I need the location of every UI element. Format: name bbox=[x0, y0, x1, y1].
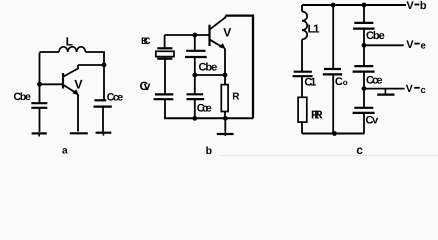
crystal BC: top plate bbox=[157, 47, 172, 49]
svg-text:Cbe: Cbe bbox=[199, 62, 218, 74]
wire: top rail right segment bbox=[85, 52, 104, 100]
capacitor Cv (b) plates bbox=[155, 93, 173, 95]
svg-text:C1: C1 bbox=[304, 77, 316, 89]
svg-text:RR: RR bbox=[311, 110, 323, 122]
svg-text:BC: BC bbox=[141, 36, 151, 47]
wire: node to Cce (c) bbox=[363, 45, 365, 66]
wire: Cce to V-c node bbox=[363, 72, 365, 89]
wire: right column top bbox=[363, 5, 365, 23]
wire: bottom rail of c bbox=[302, 133, 364, 135]
svg-text:o: o bbox=[343, 78, 348, 87]
transistor V (a): emitter arrowhead bbox=[72, 89, 79, 95]
svg-text:e: e bbox=[421, 40, 426, 51]
resistor R box bbox=[221, 85, 228, 112]
wire: V-c tap bbox=[364, 88, 405, 90]
transistor V (a): collector bbox=[64, 65, 79, 77]
node: b bottom-left dot bbox=[192, 116, 197, 121]
wire: Cce to bottom rail bbox=[194, 99, 196, 118]
node: c V-e junction dot bbox=[362, 43, 367, 48]
node: b top junction dot bbox=[192, 33, 197, 38]
wire: C1 to RR bbox=[301, 76, 303, 97]
svg-text:V: V bbox=[406, 83, 413, 95]
wire: Cbe to ground bbox=[39, 108, 41, 132]
svg-text:V: V bbox=[223, 25, 231, 39]
svg-text:Cce: Cce bbox=[197, 103, 212, 115]
capacitor Cbe (b) plates bbox=[186, 50, 205, 52]
wire: middle column upper bbox=[194, 35, 196, 51]
wire: L1 to C1 bbox=[301, 39, 303, 71]
wire: Cv to bottom rail bbox=[363, 113, 365, 134]
wire: Cce to ground bbox=[102, 107, 104, 132]
node: c bottom rail dot bbox=[332, 131, 337, 136]
transistor V (b): emitter bbox=[210, 40, 224, 48]
inductor L1 bbox=[302, 12, 307, 40]
crystal BC: bottom plate bbox=[157, 58, 172, 60]
wire: BC column top bbox=[164, 35, 166, 48]
wire: top horizontal to base bbox=[165, 34, 209, 36]
svg-text:c: c bbox=[421, 85, 426, 96]
node: b bottom-right dot bbox=[223, 116, 228, 121]
capacitor Co plates bbox=[324, 68, 341, 70]
node: c top dot 1 bbox=[331, 3, 336, 8]
svg-text:Cce: Cce bbox=[107, 92, 124, 104]
wire: middle column (Co) upper bbox=[332, 5, 334, 69]
transistor V (b): base bar bbox=[208, 25, 210, 46]
node: collector junction dot bbox=[102, 63, 107, 68]
wire: Cbe to V-e node bbox=[363, 29, 365, 46]
wire: node to R bbox=[224, 75, 226, 85]
capacitor Cce (c) plates bbox=[354, 65, 373, 67]
wire: R to bottom rail bbox=[224, 112, 226, 119]
svg-text:Cbe: Cbe bbox=[14, 91, 32, 103]
faint scan artifact line bbox=[220, 155, 438, 157]
ground (below Cbe) bbox=[32, 132, 47, 134]
capacitor Cce (a) plates bbox=[95, 99, 107, 101]
capacitor Cce (b) plates bbox=[187, 93, 204, 95]
svg-text:L: L bbox=[66, 34, 73, 48]
wire: top rail of b bbox=[226, 16, 254, 119]
transistor V (b): collector bbox=[210, 16, 226, 30]
node: base junction dot bbox=[37, 82, 42, 87]
wire: collector to node bbox=[78, 64, 104, 66]
capacitor Cbe (c) plates bbox=[354, 22, 373, 24]
wire: Co to bottom rail bbox=[332, 74, 334, 133]
ground (b) bbox=[217, 133, 234, 135]
transistor V (a): emitter with arrow bbox=[64, 85, 78, 94]
wire: middle column between Cbe and node bbox=[194, 57, 196, 75]
svg-text:V: V bbox=[406, 0, 414, 12]
svg-text:Cv: Cv bbox=[140, 79, 151, 93]
svg-text:R: R bbox=[232, 92, 240, 103]
wire: node to Cv (c) bbox=[363, 89, 365, 108]
svg-text:a: a bbox=[62, 146, 68, 157]
inductor L bbox=[59, 47, 85, 52]
svg-text:c: c bbox=[356, 143, 363, 157]
capacitor C1 plates bbox=[294, 71, 312, 73]
node: c top dot 2 bbox=[362, 3, 367, 8]
wire: left column top bbox=[301, 5, 303, 12]
wire: ground stem (b) bbox=[224, 118, 226, 133]
transistor V (a): base bar bbox=[62, 73, 64, 89]
transistor V (b): emitter arrowhead bbox=[219, 43, 226, 49]
wire: emitter down to node bbox=[224, 49, 226, 76]
svg-text:Cbe: Cbe bbox=[366, 30, 385, 42]
wire: Cv down to bottom rail bbox=[164, 99, 166, 118]
wire: left vertical (base column) bbox=[39, 53, 41, 104]
svg-text:b: b bbox=[420, 0, 427, 12]
node: c V-c junction dot bbox=[362, 86, 367, 91]
svg-text:b: b bbox=[206, 145, 212, 157]
node: b emitter/R dot bbox=[223, 73, 228, 78]
capacitor Cbe (a) plates bbox=[31, 102, 47, 104]
svg-text:C: C bbox=[335, 76, 343, 88]
wire: base wire bbox=[40, 83, 64, 85]
ground (on V-c line) bbox=[384, 89, 386, 95]
wire: RR to bottom rail bbox=[301, 122, 303, 133]
wire: bottom rail bbox=[164, 117, 253, 119]
wire: top rail of c bbox=[302, 4, 406, 6]
svg-text:Cv: Cv bbox=[366, 115, 380, 127]
wire: middle column to Cce bbox=[194, 75, 196, 94]
wire: horizontal link to emitter bbox=[195, 74, 226, 76]
svg-text:V: V bbox=[406, 39, 414, 51]
wire: emitter down bbox=[77, 95, 79, 132]
wire: top rail left segment bbox=[40, 51, 60, 53]
svg-text:Cce: Cce bbox=[366, 75, 383, 87]
wire: crystal to Cv bbox=[164, 59, 166, 94]
ground (emitter) bbox=[70, 132, 88, 134]
crystal BC: box bbox=[156, 51, 174, 56]
capacitor Cv (c) plates bbox=[354, 107, 373, 109]
svg-text:V: V bbox=[74, 78, 83, 92]
ground (below Cce) bbox=[96, 132, 112, 134]
node: b middle-left dot bbox=[192, 73, 197, 78]
wire: V-e tap bbox=[364, 44, 404, 46]
svg-text:L1: L1 bbox=[308, 24, 321, 36]
resistor RR box bbox=[298, 97, 307, 122]
